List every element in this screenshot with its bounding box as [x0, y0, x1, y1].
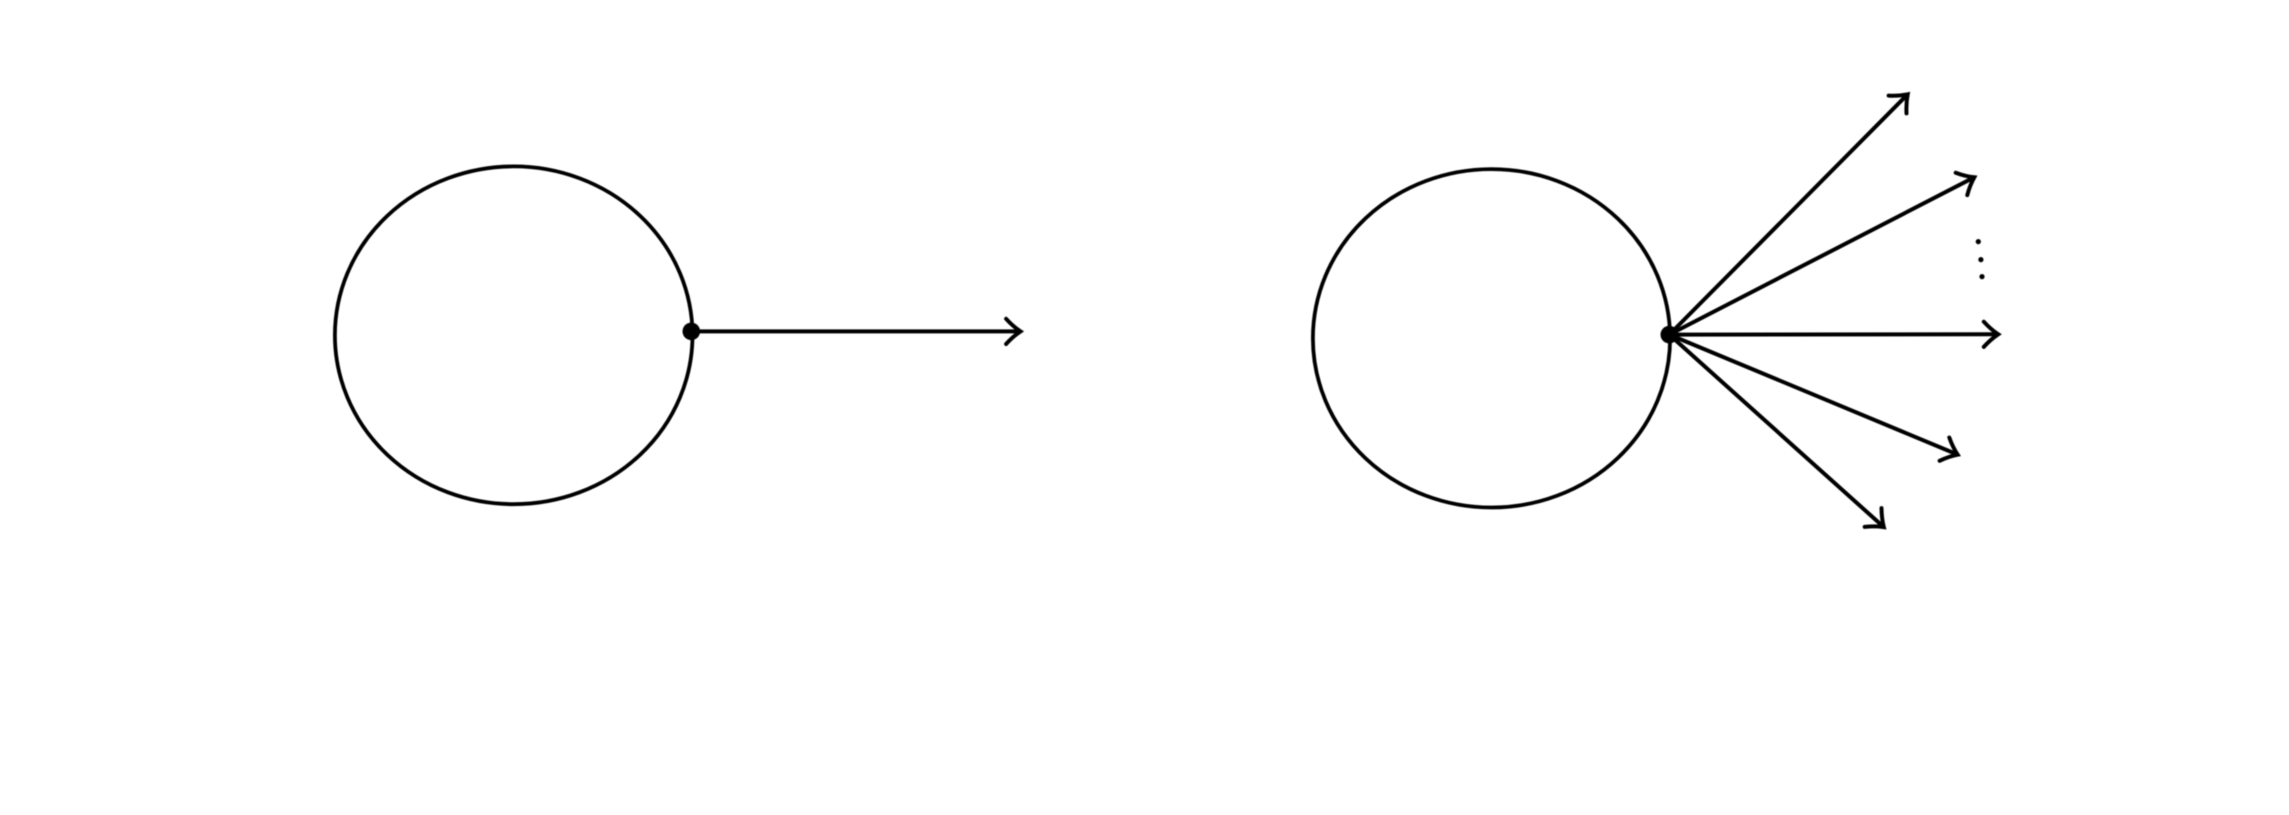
- right vertex dot: [1661, 326, 1679, 344]
- arrow 1 arrowhead: [1889, 94, 1908, 113]
- arrow 4 (down-right) shaft: [1669, 335, 1956, 454]
- arrow 2 (up-right) shaft: [1669, 178, 1972, 334]
- arrow 5 (steep down-right) shaft: [1669, 335, 1882, 526]
- arrow 5 arrowhead: [1865, 508, 1884, 527]
- arrow 3 arrowhead: [1984, 322, 1998, 347]
- left outgoing arrowhead: [1006, 319, 1020, 344]
- vertical ellipsis dot 1: [1976, 239, 1981, 244]
- arrow 1 (steep up-right) shaft: [1669, 96, 1906, 335]
- arrow 3 (horizontal) shaft: [1669, 332, 1996, 336]
- right loop circle: [1313, 169, 1670, 507]
- left outgoing arrow shaft: [691, 329, 1018, 333]
- left vertex dot: [683, 323, 701, 341]
- vertical ellipsis dot 2: [1978, 257, 1983, 262]
- vertical ellipsis dot 3: [1979, 274, 1984, 279]
- left loop circle: [335, 166, 693, 504]
- arrow 4 arrowhead: [1940, 438, 1958, 461]
- arrow 2 arrowhead: [1956, 173, 1975, 195]
